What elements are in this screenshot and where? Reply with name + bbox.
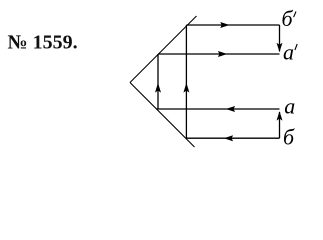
svg-text:№ 1559.: № 1559.: [8, 32, 78, 54]
svg-text:б: б: [283, 125, 295, 150]
svg-text:а: а: [284, 93, 295, 118]
svg-text:б: б: [282, 6, 294, 31]
svg-text:а: а: [283, 40, 294, 65]
